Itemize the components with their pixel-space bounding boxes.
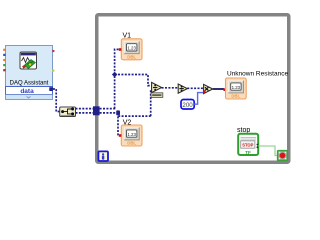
svg-text:DBL: DBL: [231, 94, 240, 99]
wire: signal 2 tunnel run: [100, 112, 118, 114]
wire: signal 2 riser to divide bottom input: [150, 90, 153, 116]
tunnel on loop border: [93, 106, 100, 115]
wire: signal 1 riser to V1: [115, 49, 120, 108]
multiply function: [204, 84, 213, 93]
wire: 200 to multiply: [194, 93, 203, 105]
svg-text:200: 200: [182, 102, 193, 109]
wire: stop to loop condition: [259, 146, 278, 156]
stop button terminal: [238, 134, 258, 155]
wire: signal 1 branch to divide top input: [115, 75, 152, 86]
wire: signal 2 drop to V2: [118, 113, 119, 136]
DAQ Assistant right stubs: [52, 50, 54, 72]
coercion dot multiply input: [203, 90, 206, 93]
svg-text:TF: TF: [245, 150, 251, 155]
wire: reciprocal to multiply: [187, 87, 203, 89]
loop condition terminal: [278, 151, 288, 161]
DAQ Assistant expand row: [6, 95, 53, 100]
coercion dot indicator input: [223, 88, 226, 91]
V2 indicator terminal: [121, 125, 142, 146]
DAQ Assistant express VI body: [6, 46, 53, 87]
divide label box: [151, 93, 163, 98]
DAQ Assistant icon: [20, 52, 37, 69]
svg-text:STOP: STOP: [242, 142, 253, 147]
junction on signal 2: [116, 110, 120, 115]
numeric constant 200: [181, 100, 194, 110]
split signals function: [60, 107, 76, 117]
wire: data to split signals: [53, 89, 60, 112]
divide function R1 ratio: [152, 82, 162, 92]
svg-text:1.23: 1.23: [127, 46, 136, 51]
svg-text:data: data: [20, 88, 34, 95]
wire: multiply to Unknown Resistance: [213, 88, 224, 90]
DAQ Assistant data output row: [6, 87, 53, 95]
loop iteration terminal i: [98, 151, 108, 161]
DAQ Assistant input stubs: [3, 49, 5, 72]
V1 input dot: [119, 48, 122, 51]
svg-text:1.23: 1.23: [127, 132, 136, 137]
svg-text:DBL: DBL: [127, 54, 136, 59]
svg-text:1.23: 1.23: [232, 85, 241, 90]
wire: split signal 2 to tunnel: [76, 112, 94, 114]
wire: divide to reciprocal: [162, 87, 179, 89]
while loop border: [97, 15, 289, 163]
wire: signal 1 tunnel to riser: [100, 108, 116, 110]
Unknown Resistance indicator terminal: [226, 78, 247, 99]
reciprocal function: [178, 84, 187, 93]
junction on signal 1: [112, 72, 118, 78]
V2 input dot: [119, 134, 122, 137]
svg-text:DAQ Assistant: DAQ Assistant: [10, 81, 49, 87]
V1 indicator terminal: [121, 39, 142, 60]
wire: split signal 1 to tunnel: [76, 108, 94, 110]
svg-text:Unknown Resistance: Unknown Resistance: [227, 71, 288, 78]
svg-text:DBL: DBL: [127, 141, 136, 146]
wire: signal 2 run to divide riser: [118, 113, 151, 116]
